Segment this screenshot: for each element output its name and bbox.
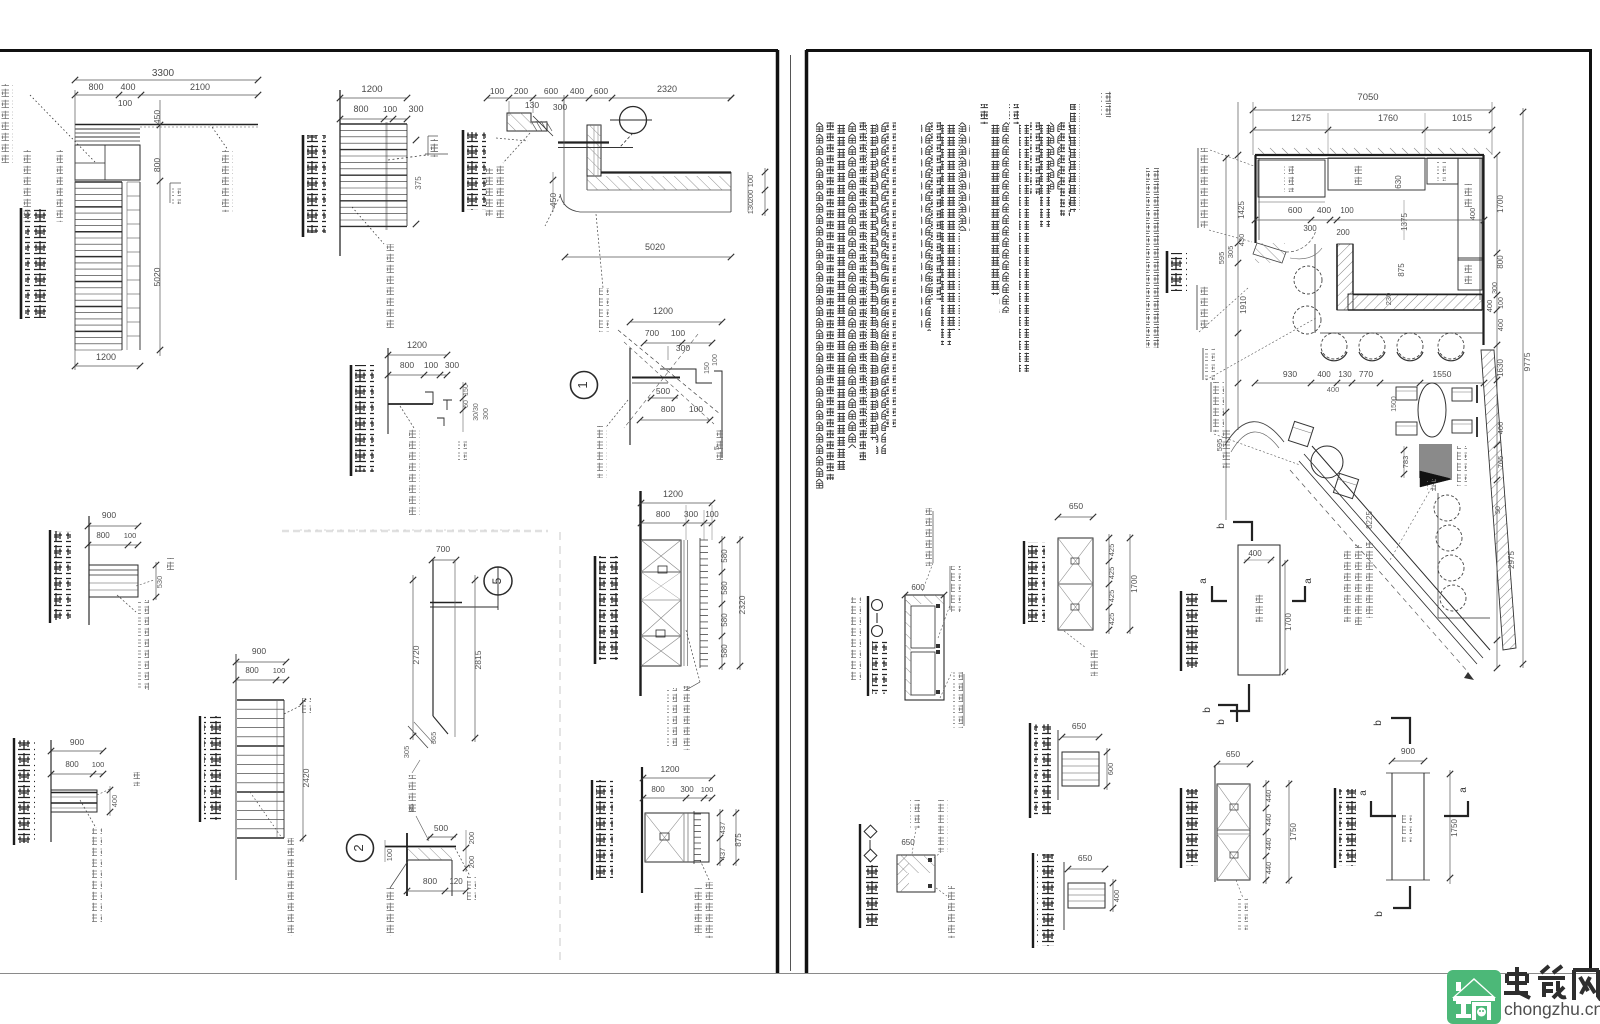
svg-text:100: 100 [1340, 206, 1354, 215]
detail title: counter 5 elevation [462, 130, 465, 212]
svg-text:b: b [1216, 719, 1227, 725]
svg-text:1910: 1910 [1239, 296, 1248, 314]
counter 1 inner elevation: leader notes [700, 860, 710, 882]
svg-text:a: a [1458, 787, 1469, 793]
svg-text:chongzhu.cn: chongzhu.cn [1504, 999, 1600, 1019]
svg-text:300: 300 [676, 343, 690, 353]
svg-text:580: 580 [720, 644, 729, 658]
svg-text:5020: 5020 [645, 242, 665, 252]
svg-text:400: 400 [1327, 385, 1340, 394]
svg-text:700: 700 [436, 544, 450, 554]
svg-text:1700: 1700 [1284, 613, 1293, 631]
plan: right tall cabinet [1458, 158, 1482, 260]
plan: bar stools left [1294, 266, 1322, 294]
svg-text:120: 120 [449, 877, 463, 886]
stair detail 1: leader to finish note [30, 95, 95, 162]
plan side note column [1146, 168, 1159, 348]
svg-text:650: 650 [1069, 501, 1083, 511]
stair detail 1: cabinet box [75, 145, 140, 180]
svg-text:305: 305 [402, 746, 411, 759]
cabinet: right dim chain 580x4 [721, 536, 723, 670]
plan: right diagonal wall [1481, 350, 1516, 650]
svg-text:1200: 1200 [661, 764, 680, 774]
plan: seating edge [1314, 244, 1316, 333]
elevation B: body [50, 740, 52, 842]
svg-text:437: 437 [718, 848, 727, 861]
svg-text:900: 900 [252, 646, 266, 656]
svg-text:300: 300 [680, 785, 694, 794]
wall section: right dim chain 100 200 130 [747, 172, 749, 212]
svg-text:400: 400 [1485, 300, 1494, 313]
side view: annotations [155, 562, 157, 600]
counter A plan: section marks [1233, 522, 1252, 541]
svg-text:800: 800 [1496, 255, 1505, 269]
svg-text:150: 150 [704, 362, 711, 374]
plan: left dim chains [1237, 102, 1239, 430]
stair detail 1: tread stack [75, 181, 122, 183]
plan: bottom-left arc counter [1225, 422, 1284, 445]
svg-text:425: 425 [1107, 567, 1116, 580]
svg-text:630: 630 [1394, 175, 1403, 189]
plan: leader lines [1210, 150, 1254, 166]
stair detail 1: right dim chain [159, 100, 161, 356]
worktop side elevation title [1029, 723, 1031, 818]
detail title: counter A1 inner elevation 3 [350, 365, 353, 476]
stair detail 2: tread stack [339, 90, 341, 256]
counter 1 inner elevation: heavy edge [641, 767, 643, 893]
svg-text:400: 400 [110, 795, 119, 808]
plan: right dim chains [1496, 155, 1498, 668]
svg-text:130: 130 [525, 100, 539, 110]
svg-text:1015: 1015 [1452, 113, 1472, 123]
counter 1 inner elevation: right dims [719, 809, 721, 866]
watermark house icon [1452, 978, 1496, 998]
svg-text:600: 600 [911, 583, 925, 592]
plan: bar stools row [1321, 333, 1347, 359]
side view: body [88, 516, 90, 625]
svg-text:400: 400 [1496, 319, 1505, 332]
svg-text:440: 440 [1264, 862, 1273, 875]
plan: door opening [1253, 243, 1286, 263]
svg-text:100: 100 [383, 104, 397, 114]
svg-text:400: 400 [570, 86, 584, 96]
svg-text:875: 875 [734, 833, 743, 847]
svg-text:1425: 1425 [1237, 201, 1246, 219]
svg-text:770: 770 [1359, 369, 1373, 379]
worktop elevation: right dims [1265, 780, 1267, 884]
svg-text:2: 2 [351, 844, 366, 851]
svg-text:300: 300 [445, 360, 459, 370]
svg-text:600: 600 [1106, 763, 1115, 776]
plan: right wall [1482, 155, 1484, 345]
cabinet: back strip and ticks [683, 540, 685, 666]
svg-text:130: 130 [746, 202, 755, 215]
svg-text:100: 100 [124, 531, 137, 540]
bottom cut line [0, 973, 1600, 975]
svg-text:300: 300 [1303, 224, 1317, 233]
svg-text:365: 365 [429, 732, 438, 745]
svg-text:400: 400 [1317, 370, 1331, 379]
svg-text:650: 650 [1072, 721, 1086, 731]
worktop plan: right dims [1108, 534, 1110, 634]
svg-text:437: 437 [718, 822, 727, 835]
svg-text:2100: 2100 [190, 82, 210, 92]
svg-text:1200: 1200 [653, 306, 673, 316]
svg-text:800: 800 [88, 82, 103, 92]
section stair: right dim 2420 [302, 700, 304, 842]
worktop plan: body [1058, 538, 1093, 630]
plan: second dim row [1255, 382, 1484, 384]
plan: bar counter L [1337, 244, 1353, 310]
svg-text:1: 1 [575, 381, 590, 388]
plan: diagonal stair [1312, 446, 1490, 650]
svg-text:230: 230 [1384, 293, 1393, 306]
svg-text:1200: 1200 [663, 489, 683, 499]
leader note text top-left [1, 84, 13, 165]
cabinet: left heavy line [639, 491, 641, 696]
svg-text:8225: 8225 [1365, 511, 1374, 529]
detail 1: concrete note [607, 400, 628, 426]
svg-text:440: 440 [1264, 814, 1273, 827]
section stair: leader note [250, 792, 282, 838]
svg-text:100: 100 [385, 849, 394, 862]
detail A1: gypsum leader [400, 406, 414, 428]
svg-text:600: 600 [1288, 205, 1302, 215]
svg-text:a: a [1198, 578, 1209, 584]
counter 1 inner elevation detail title (bottom) [591, 780, 593, 880]
wall section: detail bubble [620, 107, 647, 134]
svg-text:800: 800 [400, 360, 414, 370]
svg-text:783: 783 [1401, 456, 1410, 469]
svg-text:400: 400 [1112, 890, 1121, 903]
svg-text:3300: 3300 [152, 68, 175, 79]
svg-text:595: 595 [1215, 439, 1224, 452]
svg-text:1700: 1700 [1130, 575, 1139, 593]
svg-text:580: 580 [720, 613, 729, 627]
stair detail 2 title: bar-counter 1 exterior elevation [302, 135, 305, 237]
detail A1: body [387, 348, 389, 434]
wall section: left extension line [563, 95, 565, 205]
svg-text:a: a [1303, 578, 1314, 584]
svg-text:375: 375 [414, 176, 423, 190]
elevation B title: counter 2 elevation B [13, 738, 15, 845]
stair detail 2: leader glass note [352, 207, 384, 244]
detail 1: right riser [721, 383, 723, 458]
svg-text:200: 200 [746, 190, 755, 203]
svg-text:b: b [1216, 523, 1227, 529]
svg-text:425: 425 [1107, 613, 1116, 626]
page borders: right sheet frame [805, 50, 809, 974]
detail 1: body [629, 348, 631, 445]
plan title (rotated) [1166, 251, 1169, 293]
svg-text:200: 200 [1336, 228, 1350, 237]
plan: top cabinets [1258, 160, 1325, 197]
svg-text:800: 800 [353, 104, 368, 114]
watermark brand glyphs [1504, 966, 1600, 1000]
svg-text:765: 765 [1496, 456, 1505, 469]
svg-text:800: 800 [96, 531, 110, 540]
wall section: rebar note [596, 214, 603, 288]
section stair: top leader [284, 706, 300, 714]
svg-text:400: 400 [1317, 205, 1331, 215]
stair detail 1: leader note right [210, 124, 228, 150]
detail title: bar-counter 2 exterior elevation (rotated) [20, 208, 23, 319]
svg-text:5020: 5020 [152, 267, 162, 286]
counter A plan: body [1238, 545, 1280, 675]
svg-text:800: 800 [245, 666, 259, 675]
worktop elevation detail title [1180, 788, 1182, 868]
svg-text:800: 800 [423, 876, 437, 886]
svg-text:425: 425 [1107, 544, 1116, 557]
section b-b title [859, 824, 861, 928]
svg-text:1550: 1550 [1433, 369, 1452, 379]
section stair title: counter 2 section [199, 716, 201, 822]
svg-text:800: 800 [661, 404, 675, 414]
detail 2: body [406, 833, 408, 896]
plan: small cabinet right mid [1458, 258, 1482, 290]
svg-text:5: 5 [490, 577, 504, 584]
plan: left wall [1254, 155, 1256, 243]
stair detail 1: top tread lines [75, 128, 140, 130]
stair detail 1: serrated floor line [75, 124, 258, 126]
plan: rotated square table top [1288, 421, 1313, 446]
watermark logo green tile [1447, 970, 1501, 1024]
svg-text:1200: 1200 [361, 84, 382, 95]
svg-text:100: 100 [701, 785, 714, 794]
svg-text:300: 300 [553, 102, 567, 112]
notes text block (simulated CJK columns) [1101, 91, 1111, 118]
svg-text:1750: 1750 [1289, 823, 1298, 841]
wall section: small hatched block [507, 113, 547, 131]
svg-text:580: 580 [720, 549, 729, 563]
svg-text:930: 930 [1283, 369, 1297, 379]
svg-text:800: 800 [152, 158, 162, 172]
svg-text:1630: 1630 [1496, 359, 1505, 377]
svg-text:600: 600 [544, 86, 558, 96]
svg-text:1275: 1275 [1291, 113, 1311, 123]
svg-text:300: 300 [483, 408, 490, 420]
wall section: leader texts [503, 133, 530, 163]
counter A elevation: section marks [1391, 718, 1410, 744]
plan: square tables bottom [1396, 387, 1417, 400]
svg-text:650: 650 [1078, 853, 1092, 863]
svg-text:7050: 7050 [1357, 92, 1378, 103]
counter A plan detail title [1180, 591, 1182, 671]
svg-text:300: 300 [1492, 282, 1499, 294]
worktop elevation: leader [1236, 880, 1243, 898]
svg-text:2975: 2975 [1507, 551, 1516, 569]
svg-text:2815: 2815 [473, 650, 483, 669]
plan: stool column right [1434, 495, 1460, 521]
svg-text:440: 440 [1264, 838, 1273, 851]
svg-text:580: 580 [720, 581, 729, 595]
faint ghost text row [282, 530, 548, 533]
svg-text:100: 100 [92, 760, 105, 769]
svg-text:100: 100 [118, 98, 132, 108]
svg-text:100: 100 [712, 354, 719, 366]
worktop plan: leader [1064, 631, 1086, 648]
page borders: left sheet frame [0, 49, 778, 52]
svg-text:100: 100 [424, 360, 438, 370]
svg-text:600: 600 [594, 86, 608, 96]
svg-text:100: 100 [705, 510, 719, 519]
detail circle 1 callout [571, 372, 598, 399]
svg-text:2320: 2320 [657, 84, 677, 94]
svg-text:1750: 1750 [1450, 819, 1459, 837]
svg-text:900: 900 [1401, 746, 1415, 756]
svg-text:50: 50 [1495, 506, 1502, 514]
svg-text:450: 450 [152, 110, 162, 124]
svg-text:2420: 2420 [301, 768, 311, 787]
svg-text:300: 300 [408, 104, 423, 114]
railing pole: base [433, 716, 448, 734]
svg-text:595: 595 [1217, 252, 1226, 265]
svg-text:425: 425 [1107, 590, 1116, 603]
svg-text:400: 400 [120, 82, 135, 92]
plan: stair landing gray box [1419, 444, 1452, 478]
svg-text:900: 900 [102, 510, 116, 520]
svg-text:150: 150 [463, 384, 470, 396]
svg-text:1375: 1375 [1400, 213, 1409, 231]
worktop elevation: body [1214, 765, 1216, 882]
svg-text:875: 875 [1397, 263, 1406, 277]
svg-text:100: 100 [689, 404, 703, 414]
svg-text:1500: 1500 [1391, 396, 1398, 412]
counter A side elevation title [1032, 853, 1034, 948]
detail 2: leaders [455, 848, 470, 876]
svg-text:100: 100 [1498, 297, 1505, 309]
svg-text:85: 85 [407, 804, 416, 812]
section mark b pair [1218, 705, 1237, 722]
svg-text:200: 200 [514, 86, 528, 96]
svg-text:1760: 1760 [1378, 113, 1398, 123]
elevation B: leader [80, 800, 96, 828]
plan: inner dim row [1255, 219, 1484, 221]
svg-text:1700: 1700 [1496, 195, 1505, 213]
svg-text:400: 400 [1496, 422, 1505, 435]
svg-text:100: 100 [490, 86, 504, 96]
svg-text:100: 100 [273, 666, 286, 675]
svg-text:130: 130 [1338, 370, 1352, 379]
side view detail title: counter 2 side view [49, 530, 51, 623]
svg-text:700: 700 [645, 328, 659, 338]
svg-text:900: 900 [70, 737, 84, 747]
svg-text:500: 500 [656, 386, 670, 396]
section c-D: body [905, 595, 944, 700]
svg-text:100: 100 [671, 328, 685, 338]
svg-text:305: 305 [1226, 246, 1235, 259]
detail circle 2 callout [347, 835, 374, 862]
section b-b: leaders [910, 800, 920, 828]
svg-text:800: 800 [65, 760, 79, 769]
svg-text:1200: 1200 [96, 352, 116, 362]
svg-text:650: 650 [1226, 749, 1240, 759]
stair detail 2: right annotations [413, 137, 419, 143]
svg-text:2320: 2320 [737, 595, 747, 614]
svg-text:800: 800 [656, 509, 670, 519]
svg-text:60: 60 [463, 400, 470, 408]
counter 1 inner elevation: cabinet box [645, 813, 709, 862]
wall section: double slab line [558, 141, 609, 143]
cabinet: body with X panels [641, 540, 681, 666]
svg-text:1200: 1200 [407, 340, 427, 350]
wall section: L-shaped slab [601, 171, 731, 173]
plan: top wall [1255, 154, 1484, 156]
cabinet detail title: counter 6 inner elevation 2 [594, 556, 597, 664]
plan: stair note columns [1344, 548, 1354, 622]
worktop plan detail title [1023, 541, 1025, 624]
svg-text:30/30: 30/30 [473, 403, 480, 421]
svg-text:500: 500 [434, 823, 448, 833]
svg-text:2720: 2720 [411, 645, 421, 664]
svg-text:400: 400 [1248, 549, 1262, 558]
svg-text:200: 200 [467, 832, 476, 845]
stair detail 1: small bracket note [169, 183, 171, 203]
svg-text:800: 800 [651, 785, 665, 794]
svg-text:400: 400 [1468, 208, 1477, 221]
plan: left leader labels [1197, 148, 1199, 228]
svg-text:b: b [1373, 720, 1384, 726]
svg-text:440: 440 [1264, 790, 1273, 803]
section detail c-D title [867, 596, 869, 696]
counter A elevation detail title [1334, 788, 1336, 868]
svg-text:a: a [1358, 790, 1369, 796]
wall section: column strip [587, 125, 601, 176]
cabinet: leader notes below [686, 630, 700, 682]
separator dashed line [559, 532, 561, 962]
svg-text:b: b [1374, 911, 1385, 917]
section stair: tread stack [235, 654, 237, 880]
wall section: diagonal marks [531, 121, 537, 131]
svg-text:b: b [1202, 707, 1213, 713]
svg-text:100: 100 [746, 175, 755, 188]
svg-text:9775: 9775 [1522, 352, 1532, 371]
svg-text:530: 530 [155, 576, 164, 589]
small note near detail B [425, 153, 448, 155]
